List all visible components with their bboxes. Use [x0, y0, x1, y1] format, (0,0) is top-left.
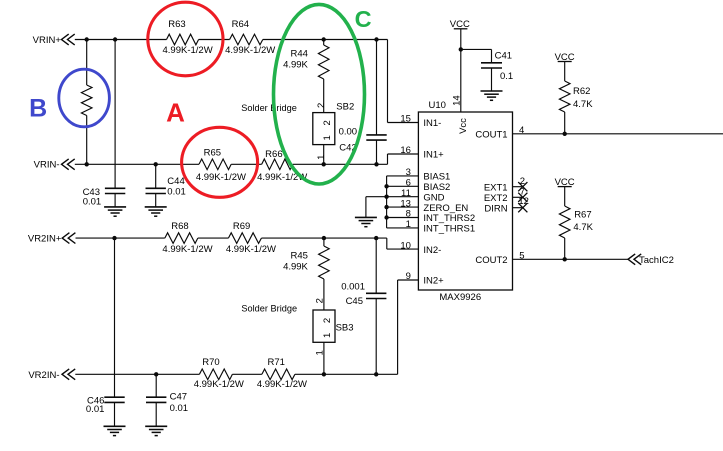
svg-text:4.7K: 4.7K [573, 222, 593, 233]
svg-text:MAX9926: MAX9926 [439, 292, 481, 303]
svg-text:Solder Bridge: Solder Bridge [241, 304, 297, 314]
svg-text:R67: R67 [574, 210, 591, 221]
svg-text:GND: GND [423, 192, 444, 203]
svg-text:BIAS1: BIAS1 [423, 172, 450, 183]
svg-text:1 2: 1 2 [322, 314, 333, 338]
svg-text:0.01: 0.01 [86, 404, 105, 415]
svg-text:R71: R71 [267, 357, 284, 368]
svg-text:13: 13 [400, 198, 411, 209]
svg-text:1: 1 [406, 219, 411, 230]
svg-text:Vcc: Vcc [458, 118, 469, 134]
svg-text:INT_THRS1: INT_THRS1 [423, 224, 475, 235]
svg-text:SB3: SB3 [336, 322, 354, 333]
svg-text:0.1: 0.1 [500, 71, 513, 82]
svg-text:IN1-: IN1- [423, 118, 441, 129]
svg-text:4.99K-1/2W: 4.99K-1/2W [196, 172, 246, 183]
svg-text:C47: C47 [170, 392, 187, 403]
svg-text:VCC: VCC [555, 177, 575, 188]
svg-text:R69: R69 [233, 221, 250, 232]
svg-text:0.01: 0.01 [170, 403, 189, 414]
svg-text:VRIN+: VRIN+ [33, 35, 62, 46]
svg-text:R63: R63 [168, 19, 185, 30]
svg-text:R65: R65 [204, 148, 221, 159]
svg-text:SB2: SB2 [336, 102, 354, 113]
svg-text:1: 1 [316, 155, 327, 160]
svg-text:Solder Bridge: Solder Bridge [241, 103, 297, 113]
svg-text:VR2IN+: VR2IN+ [28, 234, 62, 245]
svg-text:1 2: 1 2 [322, 117, 333, 141]
svg-text:R44: R44 [290, 48, 307, 59]
svg-text:2: 2 [315, 298, 326, 303]
svg-text:2: 2 [316, 103, 327, 108]
svg-text:4.99K: 4.99K [283, 262, 308, 273]
svg-text:4.99K-1/2W: 4.99K-1/2W [225, 45, 275, 56]
svg-text:TachIC2: TachIC2 [639, 255, 674, 266]
svg-text:4.99K: 4.99K [283, 60, 308, 71]
svg-text:6: 6 [406, 178, 411, 189]
svg-text:IN2-: IN2- [423, 245, 441, 256]
svg-text:3: 3 [406, 167, 411, 178]
svg-text:VCC: VCC [450, 19, 470, 30]
svg-text:C45: C45 [346, 296, 363, 307]
svg-text:R64: R64 [232, 19, 249, 30]
svg-text:R70: R70 [202, 357, 219, 368]
svg-text:4.7K: 4.7K [573, 99, 593, 110]
svg-text:11: 11 [401, 188, 411, 199]
svg-text:0.01: 0.01 [83, 196, 102, 207]
svg-text:4.99K-1/2W: 4.99K-1/2W [163, 45, 213, 56]
svg-text:15: 15 [400, 114, 411, 125]
svg-text:1: 1 [315, 350, 326, 355]
svg-text:VR2IN-: VR2IN- [28, 370, 59, 381]
svg-text:C: C [355, 6, 372, 32]
svg-text:ZERO_EN: ZERO_EN [423, 203, 468, 214]
svg-text:EXT1: EXT1 [484, 182, 508, 193]
svg-text:R66: R66 [265, 149, 282, 160]
svg-text:INT_THRS2: INT_THRS2 [423, 213, 475, 224]
svg-text:R68: R68 [171, 221, 188, 232]
svg-text:8: 8 [406, 209, 411, 220]
svg-text:4.99K-1/2W: 4.99K-1/2W [226, 244, 276, 255]
svg-text:A: A [166, 97, 185, 127]
svg-text:VCC: VCC [555, 52, 575, 63]
svg-text:4.99K-1/2W: 4.99K-1/2W [162, 244, 212, 255]
svg-text:0.01: 0.01 [167, 186, 186, 197]
svg-text:IN1+: IN1+ [423, 150, 444, 161]
svg-text:C41: C41 [495, 50, 512, 61]
svg-text:14: 14 [451, 95, 462, 106]
svg-text:C44: C44 [167, 176, 184, 187]
svg-text:VRIN-: VRIN- [34, 160, 60, 171]
svg-text:0.00: 0.00 [339, 126, 358, 137]
svg-text:U10: U10 [429, 100, 446, 111]
svg-text:DIRN: DIRN [484, 203, 507, 214]
svg-text:R62: R62 [573, 86, 590, 97]
svg-text:4.99K-1/2W: 4.99K-1/2W [257, 379, 307, 390]
svg-text:EXT2: EXT2 [484, 193, 508, 204]
svg-text:BIAS2: BIAS2 [423, 182, 450, 193]
svg-text:R45: R45 [290, 250, 307, 261]
svg-text:IN2+: IN2+ [423, 276, 444, 287]
svg-text:4.99K-1/2W: 4.99K-1/2W [194, 379, 244, 390]
svg-text:COUT2: COUT2 [475, 255, 507, 266]
svg-text:COUT1: COUT1 [475, 129, 507, 140]
svg-text:B: B [29, 94, 47, 122]
svg-text:0.001: 0.001 [341, 282, 365, 293]
svg-text:16: 16 [400, 145, 411, 156]
